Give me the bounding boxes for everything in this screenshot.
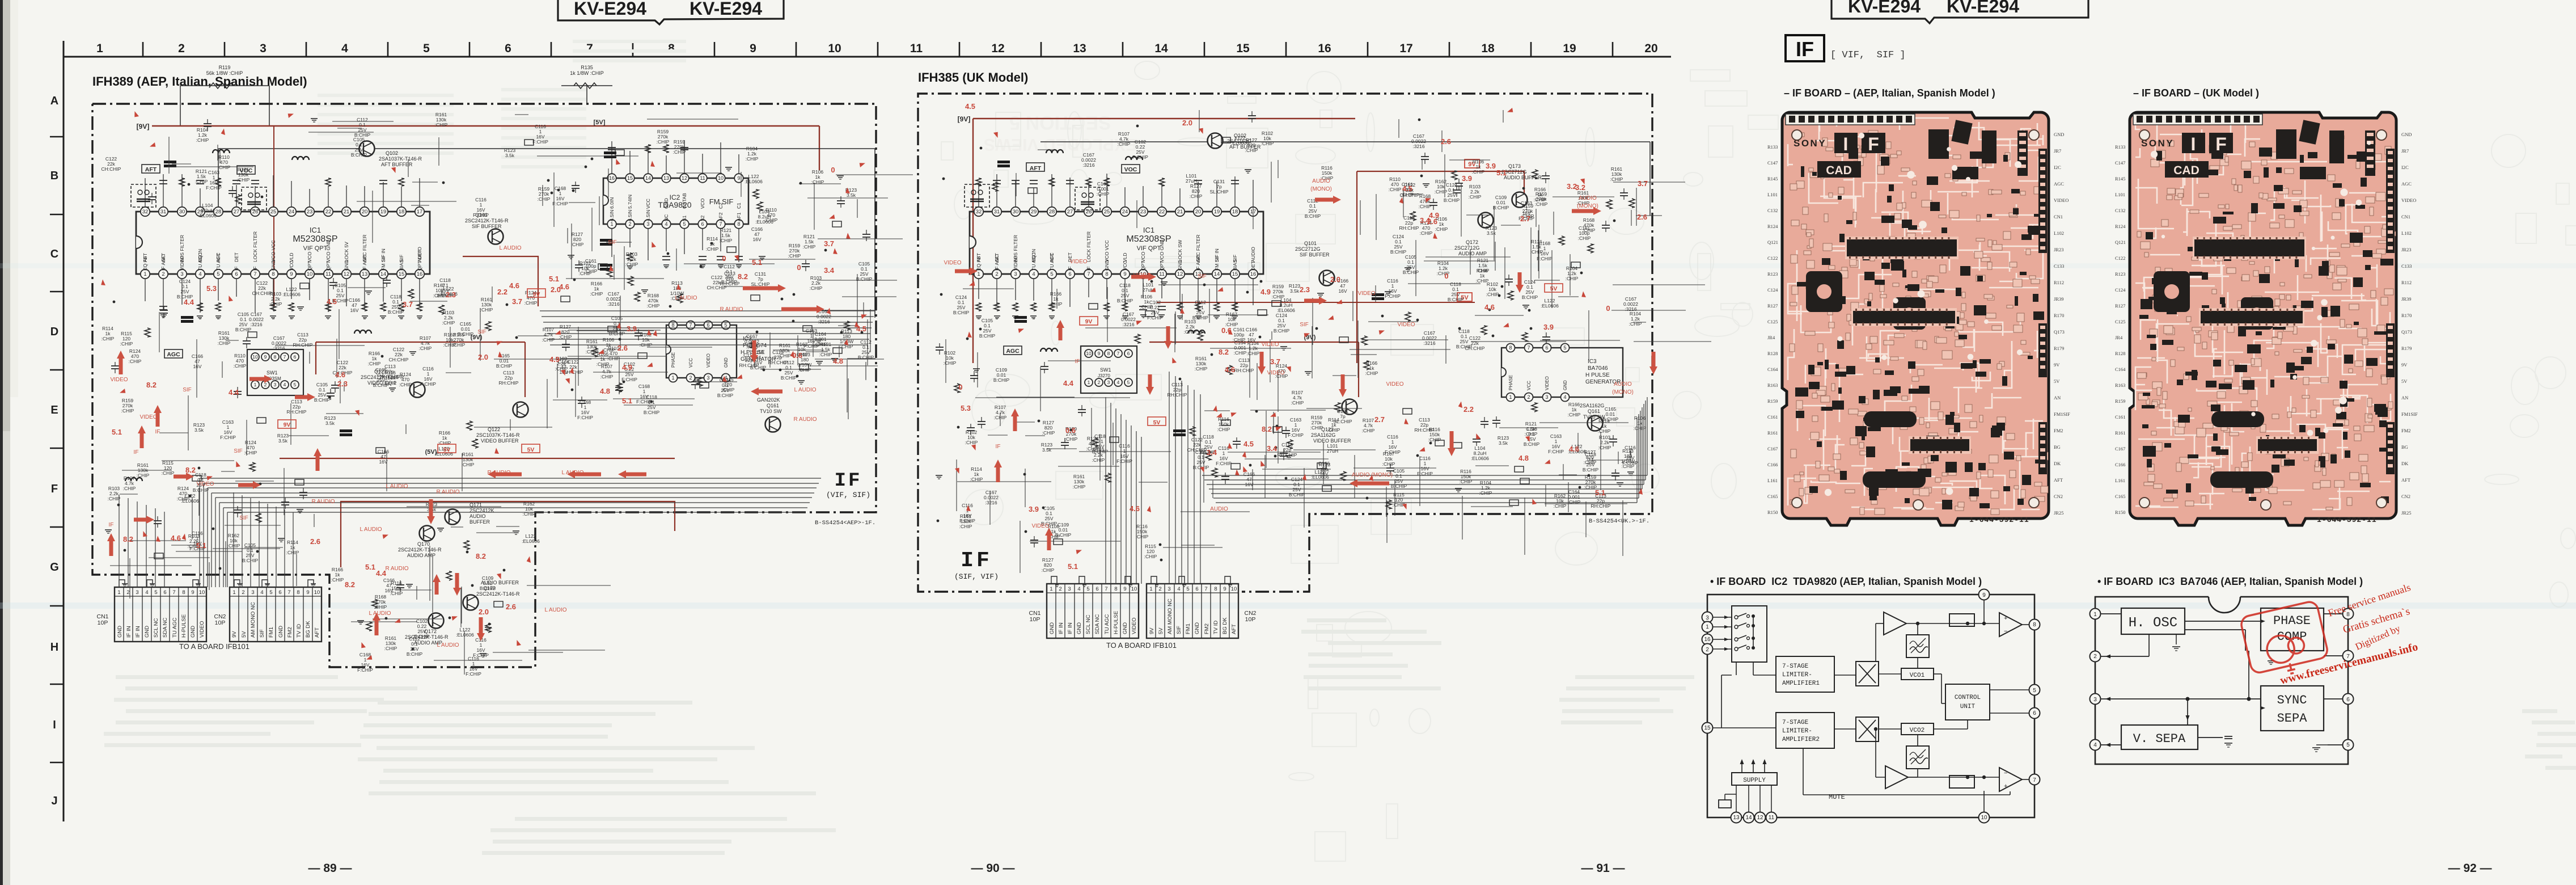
svg-text:B:CHIP: B:CHIP bbox=[1444, 197, 1460, 203]
svg-text:IF: IF bbox=[1067, 266, 1073, 271]
svg-text::CHIP: :CHIP bbox=[1362, 428, 1375, 433]
svg-text:4.6: 4.6 bbox=[1569, 445, 1579, 453]
svg-text:TU AGC: TU AGC bbox=[1104, 614, 1110, 634]
svg-text::CHIP: :CHIP bbox=[803, 244, 816, 250]
svg-text:3: 3 bbox=[1014, 271, 1017, 277]
supply box bbox=[1732, 773, 1777, 785]
edge connector bars bbox=[2017, 130, 2028, 176]
svg-text:F:CHIP: F:CHIP bbox=[220, 435, 236, 440]
svg-text:R AUDIO: R AUDIO bbox=[385, 566, 408, 572]
pin 3 bbox=[1702, 612, 1713, 623]
svg-text:[9V]: [9V] bbox=[958, 115, 971, 123]
svg-text:2: 2 bbox=[1059, 586, 1061, 592]
svg-text:1k 1/8W :CHIP: 1k 1/8W :CHIP bbox=[570, 70, 604, 76]
svg-text:0.6: 0.6 bbox=[1065, 426, 1076, 435]
coil L104 (UK) bbox=[1046, 150, 1063, 153]
svg-text:L AUDIO: L AUDIO bbox=[499, 245, 521, 251]
svg-text:R179: R179 bbox=[2401, 345, 2412, 351]
svg-text:B:CHIP: B:CHIP bbox=[1390, 249, 1407, 255]
edge connector bars bbox=[2365, 130, 2375, 176]
trap coil CT1 bbox=[164, 161, 176, 163]
svg-text:4.6: 4.6 bbox=[1225, 365, 1235, 374]
IC1 chip bbox=[2193, 237, 2306, 259]
svg-text:– IF BOARD – (UK Model ): – IF BOARD – (UK Model ) bbox=[2133, 87, 2259, 99]
svg-text:16V: 16V bbox=[193, 364, 201, 369]
svg-text:VIDEO BUFFER: VIDEO BUFFER bbox=[481, 438, 519, 444]
svg-text:−: − bbox=[2004, 628, 2007, 635]
svg-text:2: 2 bbox=[628, 221, 631, 227]
svg-text::CHIP: :CHIP bbox=[746, 156, 759, 162]
svg-text:L102: L102 bbox=[2401, 230, 2412, 236]
svg-text:8.2: 8.2 bbox=[1219, 348, 1229, 356]
svg-text:9V: 9V bbox=[1085, 318, 1093, 325]
svg-text:AFT: AFT bbox=[2401, 477, 2411, 483]
pin 7 bbox=[2343, 651, 2354, 661]
SYNC SEPA box bbox=[2261, 686, 2324, 731]
svg-text:F:CHIP: F:CHIP bbox=[1548, 449, 1564, 454]
IF section header box bbox=[1786, 35, 1824, 61]
svg-text:16: 16 bbox=[1318, 42, 1331, 55]
svg-text:B:CHIP: B:CHIP bbox=[480, 585, 496, 591]
svg-text:16V: 16V bbox=[350, 307, 358, 313]
svg-text:32: 32 bbox=[976, 209, 982, 215]
svg-text:B-SS4254<AEP>-1F.: B-SS4254<AEP>-1F. bbox=[815, 520, 875, 526]
svg-text:3.7: 3.7 bbox=[1638, 179, 1648, 188]
svg-text:MUTE: MUTE bbox=[1829, 793, 1845, 801]
svg-text:27uH: 27uH bbox=[1186, 178, 1197, 184]
svg-text:H. OSC: H. OSC bbox=[2129, 616, 2177, 631]
svg-text:16: 16 bbox=[417, 271, 423, 277]
svg-text:B:CHIP: B:CHIP bbox=[1274, 328, 1290, 334]
svg-text:CAD: CAD bbox=[2173, 164, 2199, 177]
svg-text:5V: 5V bbox=[2401, 378, 2408, 384]
filter C103 (UK) bbox=[1014, 316, 1027, 319]
svg-text:PHASE: PHASE bbox=[1508, 375, 1513, 390]
transistor Q102 (UK) bbox=[1208, 133, 1223, 149]
svg-text:12: 12 bbox=[344, 271, 350, 277]
svg-text:9: 9 bbox=[1123, 586, 1126, 592]
svg-text::CHIP: :CHIP bbox=[1184, 329, 1197, 335]
svg-text:11: 11 bbox=[325, 271, 331, 277]
op-amp IC1 M52308SP VIF QPT bbox=[136, 174, 430, 319]
svg-text:30: 30 bbox=[179, 209, 185, 215]
svg-text:VCO VCC: VCO VCC bbox=[1104, 240, 1110, 262]
svg-text:5.1: 5.1 bbox=[196, 541, 206, 550]
svg-text:10: 10 bbox=[252, 354, 258, 360]
svg-text:SIF: SIF bbox=[234, 448, 243, 454]
svg-text:J3270: J3270 bbox=[1098, 373, 1110, 378]
svg-text:2.0: 2.0 bbox=[1330, 275, 1340, 284]
svg-text:AM MONO NC: AM MONO NC bbox=[1167, 599, 1173, 634]
wire drops to CN1 bbox=[119, 495, 120, 587]
svg-text::CHIP: :CHIP bbox=[244, 450, 257, 456]
svg-text::CHIP: :CHIP bbox=[673, 149, 686, 155]
svg-text:5.1: 5.1 bbox=[1496, 168, 1507, 177]
svg-text:4.9: 4.9 bbox=[622, 363, 632, 372]
svg-text:5.74IN: 5.74IN bbox=[627, 195, 633, 209]
svg-text:3: 3 bbox=[707, 375, 709, 381]
svg-text:6: 6 bbox=[707, 322, 709, 328]
svg-text:VCO GND: VCO GND bbox=[1159, 239, 1165, 262]
svg-text:6.5IN: 6.5IN bbox=[609, 210, 615, 221]
pin 12 bbox=[1755, 812, 1766, 823]
svg-text:VIDEO: VIDEO bbox=[1013, 255, 1018, 271]
svg-text:AN: AN bbox=[2054, 395, 2061, 401]
header model tab KV-E294 left bbox=[558, 0, 784, 24]
svg-text:12: 12 bbox=[991, 42, 1004, 55]
svg-text:7: 7 bbox=[284, 354, 286, 360]
svg-text:6.0IN: 6.0IN bbox=[609, 197, 615, 209]
svg-text:L AUDIO: L AUDIO bbox=[437, 642, 459, 648]
svg-text:2: 2 bbox=[1098, 380, 1101, 385]
svg-text:7: 7 bbox=[2033, 777, 2036, 783]
CAD stamp bbox=[2165, 161, 2209, 178]
svg-text:15: 15 bbox=[1236, 42, 1250, 55]
svg-text:L161: L161 bbox=[1767, 478, 1778, 483]
input switch box bbox=[1732, 606, 1767, 662]
svg-text:SECTION 5: SECTION 5 bbox=[1009, 112, 1111, 133]
svg-text:20: 20 bbox=[1195, 209, 1202, 215]
coil L103 (UK) bbox=[1126, 157, 1143, 160]
svg-text:FM2: FM2 bbox=[2054, 428, 2063, 433]
svg-text::CHIP: :CHIP bbox=[798, 367, 811, 373]
IC3 block outer box bbox=[2095, 597, 2348, 764]
svg-text:IF AGC: IF AGC bbox=[994, 255, 1000, 271]
svg-text:IFH389 (AEP, Italian, Spanish: IFH389 (AEP, Italian, Spanish Model) bbox=[92, 74, 307, 88]
svg-text:5: 5 bbox=[2033, 688, 2036, 694]
7-stage limiter amplifier 2 bbox=[1776, 713, 1834, 748]
svg-text::CHIP: :CHIP bbox=[438, 440, 451, 446]
cap bank CF3 bbox=[600, 264, 612, 267]
mixer bbox=[1856, 661, 1879, 686]
svg-text:6.5IN: 6.5IN bbox=[627, 210, 633, 221]
svg-text:A: A bbox=[50, 95, 58, 107]
svg-text:10: 10 bbox=[828, 42, 841, 55]
voltage marks bbox=[99, 111, 867, 662]
svg-text:RH:CHIP: RH:CHIP bbox=[293, 342, 313, 348]
svg-text:10: 10 bbox=[1086, 351, 1092, 356]
svg-text:30: 30 bbox=[1013, 209, 1019, 215]
svg-text:RH:CHIP: RH:CHIP bbox=[499, 380, 519, 386]
svg-text:7-STAGE: 7-STAGE bbox=[1782, 663, 1809, 670]
svg-text:C164: C164 bbox=[2115, 366, 2126, 372]
svg-text::CHIP: :CHIP bbox=[218, 340, 231, 346]
svg-text:SL:CHIP: SL:CHIP bbox=[1209, 189, 1228, 195]
gain block R2 bbox=[1949, 776, 1974, 788]
svg-text::CHIP: :CHIP bbox=[196, 137, 209, 143]
svg-text:6: 6 bbox=[1127, 351, 1130, 356]
svg-text:GND: GND bbox=[2054, 132, 2064, 137]
svg-text:10P: 10P bbox=[215, 619, 226, 626]
pin 3 bbox=[2090, 694, 2101, 705]
svg-text:5.3: 5.3 bbox=[961, 404, 971, 412]
svg-text:8.2: 8.2 bbox=[146, 381, 156, 389]
svg-text:2.0: 2.0 bbox=[1182, 119, 1192, 127]
svg-text::CHIP: :CHIP bbox=[177, 496, 190, 501]
svg-text:7: 7 bbox=[719, 221, 722, 227]
svg-text:8: 8 bbox=[1105, 271, 1108, 277]
schematic IFH389 border bbox=[92, 104, 876, 667]
svg-text:5V: 5V bbox=[1550, 285, 1558, 292]
pin 13 bbox=[1731, 812, 1742, 823]
svg-text:F:CHIP: F:CHIP bbox=[1216, 461, 1232, 466]
svg-text::3216: :3216 bbox=[1122, 322, 1135, 327]
svg-text:AUDIO: AUDIO bbox=[1579, 195, 1597, 201]
svg-text:VCC: VCC bbox=[289, 260, 294, 271]
svg-text:[9V]: [9V] bbox=[137, 123, 150, 130]
svg-text:3.4: 3.4 bbox=[1420, 216, 1431, 225]
svg-text:SIF: SIF bbox=[259, 629, 265, 638]
svg-text:9: 9 bbox=[306, 589, 309, 596]
pin 14 bbox=[1744, 812, 1754, 823]
svg-text:2SC2712G: 2SC2712G bbox=[1454, 245, 1480, 251]
resistor R135 bbox=[561, 85, 612, 86]
svg-text::CHIP: :CHIP bbox=[1065, 436, 1078, 442]
svg-text:22: 22 bbox=[325, 209, 332, 215]
svg-text:18: 18 bbox=[1232, 209, 1238, 215]
svg-text::CHIP: :CHIP bbox=[1310, 425, 1323, 431]
svg-text:22: 22 bbox=[1159, 209, 1165, 215]
svg-text:AUDIO: AUDIO bbox=[1210, 506, 1228, 512]
transistor Q101 bbox=[488, 229, 504, 245]
9V video rail wire bbox=[316, 342, 525, 343]
svg-text:F:CHIP: F:CHIP bbox=[1417, 471, 1433, 477]
svg-text:3.7: 3.7 bbox=[1270, 357, 1280, 366]
wire mesh bbox=[110, 115, 913, 675]
svg-text:JR25: JR25 bbox=[2054, 510, 2063, 516]
svg-text:13: 13 bbox=[1073, 42, 1086, 55]
cap bank C141 (UK) bbox=[1173, 429, 1186, 432]
svg-text:9V: 9V bbox=[2054, 362, 2060, 368]
transformer T4 (UK) bbox=[1075, 187, 1100, 210]
svg-text:13: 13 bbox=[362, 271, 368, 277]
svg-text:B:CHIP: B:CHIP bbox=[354, 132, 371, 138]
svg-text:2.0: 2.0 bbox=[478, 353, 488, 361]
svg-text:I2C: I2C bbox=[2401, 165, 2409, 170]
svg-text:F:CHIP: F:CHIP bbox=[552, 201, 568, 206]
svg-text:BG DK: BG DK bbox=[1222, 617, 1228, 634]
svg-text:Q173: Q173 bbox=[1508, 163, 1521, 169]
svg-text:DET: DET bbox=[1250, 261, 1256, 271]
svg-text:PHASE: PHASE bbox=[2273, 614, 2311, 628]
svg-text:IF AGC: IF AGC bbox=[160, 255, 166, 271]
svg-text:1: 1 bbox=[610, 221, 613, 227]
svg-text:8: 8 bbox=[668, 42, 675, 55]
svg-text:C2: C2 bbox=[718, 203, 724, 209]
svg-text:(SIF, VIF): (SIF, VIF) bbox=[954, 572, 999, 581]
svg-text:LOCK FILTER: LOCK FILTER bbox=[252, 231, 258, 262]
svg-text:F:CHIP: F:CHIP bbox=[466, 671, 481, 677]
svg-text:GND: GND bbox=[2401, 132, 2412, 137]
svg-text:16: 16 bbox=[1704, 637, 1711, 643]
svg-text:QPT: QPT bbox=[325, 261, 331, 271]
svg-text:E: E bbox=[50, 404, 58, 416]
svg-text:R179: R179 bbox=[2054, 345, 2064, 351]
svg-text:11: 11 bbox=[1159, 271, 1165, 277]
svg-text::CHIP: :CHIP bbox=[647, 303, 660, 309]
svg-text:3.9: 3.9 bbox=[1543, 323, 1554, 331]
svg-text:F:CHIP: F:CHIP bbox=[1147, 315, 1163, 321]
svg-text:6: 6 bbox=[2033, 710, 2036, 717]
svg-text:20: 20 bbox=[1644, 42, 1657, 55]
svg-text:2.7: 2.7 bbox=[1520, 214, 1530, 223]
svg-text:R161: R161 bbox=[2115, 430, 2125, 436]
svg-text:AF2: AF2 bbox=[718, 212, 724, 221]
svg-text:7-STAGE: 7-STAGE bbox=[1782, 719, 1809, 726]
svg-text:B:CHIP: B:CHIP bbox=[314, 397, 331, 403]
svg-text:6: 6 bbox=[278, 589, 281, 596]
svg-text::CHIP: :CHIP bbox=[965, 440, 978, 445]
transistor Q172 bbox=[429, 613, 444, 629]
svg-text:3.5k: 3.5k bbox=[278, 438, 288, 444]
svg-text:DET: DET bbox=[234, 252, 239, 262]
svg-text:CN1: CN1 bbox=[2401, 214, 2410, 220]
svg-text:29: 29 bbox=[1031, 209, 1037, 215]
svg-text::3216: :3216 bbox=[273, 345, 285, 351]
transistor Q121 bbox=[410, 382, 425, 398]
svg-text:FM2: FM2 bbox=[2401, 428, 2411, 433]
svg-text:IF: IF bbox=[234, 266, 239, 271]
svg-text:0: 0 bbox=[958, 383, 962, 391]
svg-text::CHIP: :CHIP bbox=[480, 307, 493, 313]
svg-text:6: 6 bbox=[294, 354, 297, 360]
svg-text::CHIP: :CHIP bbox=[788, 253, 801, 259]
svg-text:V. SEPA: V. SEPA bbox=[2133, 732, 2186, 746]
svg-text:CH:CHIP: CH:CHIP bbox=[101, 166, 121, 172]
svg-text:4: 4 bbox=[1032, 271, 1035, 277]
svg-text:DK: DK bbox=[2401, 461, 2409, 466]
svg-text:4: 4 bbox=[145, 589, 148, 596]
svg-text:14: 14 bbox=[1154, 42, 1168, 55]
svg-text::CHIP: :CHIP bbox=[1144, 554, 1157, 559]
svg-text:C125: C125 bbox=[2115, 319, 2125, 324]
svg-text:R124: R124 bbox=[1767, 224, 1778, 229]
svg-text:15: 15 bbox=[627, 175, 633, 181]
svg-text:4.8: 4.8 bbox=[1518, 454, 1529, 462]
svg-text::CHIP: :CHIP bbox=[970, 477, 983, 482]
svg-text:6: 6 bbox=[235, 271, 238, 277]
svg-text:AUDIO AMP: AUDIO AMP bbox=[1458, 251, 1487, 256]
svg-text:GND: GND bbox=[344, 260, 349, 271]
svg-text:8: 8 bbox=[272, 271, 274, 277]
svg-text:2SA1162G: 2SA1162G bbox=[1580, 403, 1604, 408]
7-stage limiter amplifier 1 bbox=[1776, 656, 1834, 692]
transistor Q173 bbox=[463, 595, 479, 610]
svg-text::CHIP: :CHIP bbox=[1435, 189, 1448, 195]
svg-text::CHIP: :CHIP bbox=[706, 246, 719, 252]
svg-text:B:CHIP: B:CHIP bbox=[979, 333, 996, 339]
svg-text:4.4: 4.4 bbox=[1063, 379, 1074, 387]
pin 1 bbox=[1702, 622, 1713, 633]
svg-text:8: 8 bbox=[274, 354, 277, 360]
svg-text:VCC: VCC bbox=[1526, 381, 1532, 390]
svg-text:C161: C161 bbox=[2115, 414, 2125, 420]
svg-text:16V: 16V bbox=[1247, 337, 1255, 343]
svg-text:R135: R135 bbox=[581, 65, 593, 70]
comparator C1 bbox=[1999, 613, 2022, 637]
svg-text:5: 5 bbox=[1127, 380, 1130, 385]
svg-text:F:CHIP: F:CHIP bbox=[1116, 458, 1132, 464]
filter C103 bbox=[181, 316, 193, 319]
svg-text:AUDIO AMP: AUDIO AMP bbox=[407, 553, 435, 558]
IF board label blocks bbox=[1834, 133, 1858, 153]
svg-text:5.3: 5.3 bbox=[206, 284, 217, 293]
svg-text:8.2: 8.2 bbox=[123, 535, 133, 543]
svg-text:C125: C125 bbox=[1767, 319, 1778, 324]
svg-text:9V: 9V bbox=[2401, 362, 2408, 368]
svg-text:B:CHIP: B:CHIP bbox=[856, 276, 873, 282]
row letters bbox=[50, 45, 64, 821]
svg-text::CHIP: :CHIP bbox=[1382, 461, 1395, 467]
svg-text::CHIP: :CHIP bbox=[1217, 427, 1230, 432]
svg-text:VIF QPT: VIF QPT bbox=[1137, 245, 1161, 252]
trap coil CT1 (UK) bbox=[997, 161, 1010, 163]
svg-text:IFH385 (UK Model): IFH385 (UK Model) bbox=[918, 70, 1028, 85]
transistor Q122 (UK) bbox=[1342, 399, 1357, 415]
svg-text:JR7: JR7 bbox=[2401, 148, 2409, 154]
svg-text:(MONO): (MONO) bbox=[1612, 389, 1634, 395]
svg-text:TU AGC: TU AGC bbox=[172, 617, 178, 638]
svg-text::CHIP: :CHIP bbox=[944, 360, 957, 366]
svg-text:H: H bbox=[50, 641, 58, 654]
V.SEPA box bbox=[2121, 725, 2198, 749]
svg-text:SIF: SIF bbox=[477, 329, 487, 335]
svg-text::3216: :3216 bbox=[818, 319, 830, 324]
svg-text:9V: 9V bbox=[1149, 627, 1155, 634]
svg-text:27uH: 27uH bbox=[1327, 448, 1338, 454]
svg-text:R123: R123 bbox=[2115, 271, 2125, 277]
svg-text:RH:CHIP: RH:CHIP bbox=[287, 409, 307, 415]
svg-text:16V: 16V bbox=[1338, 288, 1347, 294]
svg-text:F:CHIP: F:CHIP bbox=[1385, 449, 1401, 455]
svg-text:IC1: IC1 bbox=[1143, 226, 1154, 234]
svg-text:TV10 SW: TV10 SW bbox=[760, 408, 782, 414]
svg-text:B:CHIP: B:CHIP bbox=[235, 327, 252, 332]
svg-text::CHIP: :CHIP bbox=[1479, 490, 1492, 496]
IC2 chip bbox=[1909, 436, 1971, 454]
svg-text:3.7: 3.7 bbox=[824, 239, 834, 248]
svg-text:2: 2 bbox=[1527, 394, 1530, 400]
svg-text:10P: 10P bbox=[98, 619, 108, 626]
svg-text:AM MONO NC: AM MONO NC bbox=[250, 602, 256, 638]
svg-text:3.7: 3.7 bbox=[403, 300, 413, 309]
svg-text::CHIP: :CHIP bbox=[994, 415, 1007, 420]
svg-text:CONTROL: CONTROL bbox=[1955, 694, 1981, 701]
svg-text:C132: C132 bbox=[2115, 208, 2125, 213]
svg-text:4.9: 4.9 bbox=[1260, 288, 1271, 296]
svg-text:9: 9 bbox=[264, 354, 267, 360]
svg-text::CHIP: :CHIP bbox=[959, 524, 972, 529]
svg-text:10: 10 bbox=[1231, 586, 1237, 592]
pin 2 bbox=[1702, 644, 1713, 655]
svg-text:0: 0 bbox=[722, 254, 726, 263]
svg-text::CHIP: :CHIP bbox=[120, 341, 133, 347]
svg-text::CHIP: :CHIP bbox=[1477, 268, 1490, 273]
svg-text:4.6: 4.6 bbox=[559, 283, 569, 291]
svg-text:B:CHIP: B:CHIP bbox=[644, 410, 660, 415]
svg-text::CHIP: :CHIP bbox=[1530, 249, 1543, 255]
svg-text::CHIP: :CHIP bbox=[101, 336, 115, 342]
svg-text:FM1SIF: FM1SIF bbox=[2401, 411, 2418, 417]
pin 7 bbox=[2029, 774, 2040, 785]
svg-text:+: + bbox=[2004, 615, 2007, 622]
svg-text:L AUDIO: L AUDIO bbox=[544, 607, 566, 613]
svg-text:B:CHIP: B:CHIP bbox=[193, 487, 209, 493]
svg-text::CHIP: :CHIP bbox=[269, 301, 282, 307]
svg-text::CHIP: :CHIP bbox=[722, 387, 735, 393]
svg-text:SDA NC: SDA NC bbox=[1094, 614, 1101, 634]
svg-text:18: 18 bbox=[399, 209, 405, 215]
